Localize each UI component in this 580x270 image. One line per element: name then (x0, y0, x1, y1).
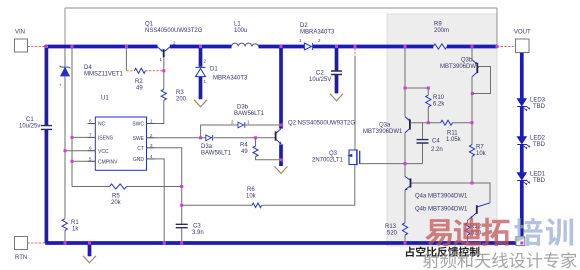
wire C2 branch (335, 47, 339, 94)
svg-text:Q3b: Q3b (461, 58, 473, 64)
resistor R13 520 (402, 223, 407, 235)
resistor R12 520 (465, 223, 470, 235)
svg-text:R4: R4 (240, 143, 248, 149)
svg-text:10k: 10k (476, 151, 487, 157)
wire CMPINV tap (72, 160, 95, 162)
wire VCC tap (65, 150, 95, 152)
svg-text:10k: 10k (246, 194, 257, 200)
svg-text:R5: R5 (112, 194, 120, 200)
svg-text:49: 49 (241, 149, 248, 155)
svg-text:C1: C1 (26, 117, 34, 123)
wire R4 branch (256, 138, 280, 160)
svg-text:BAW56LT1: BAW56LT1 (234, 111, 265, 117)
svg-text:LED2: LED2 (530, 136, 546, 142)
capacitor C3 3.9n (176, 224, 188, 227)
svg-text:3: 3 (150, 143, 153, 148)
svg-text:RTN: RTN (15, 255, 27, 261)
svg-text:R10: R10 (433, 95, 445, 101)
svg-text:R6: R6 (247, 187, 255, 193)
port VOUT (516, 39, 530, 53)
wire Q3a branch (404, 48, 406, 116)
svg-text:R2: R2 (135, 79, 143, 85)
wire zener/R1 branch (64, 48, 66, 241)
svg-text:1: 1 (160, 57, 163, 62)
ground below D1 (194, 100, 207, 107)
diode D1 MBRA340T3 (196, 67, 206, 76)
wire Q3a collector down (404, 133, 406, 177)
wire RTN to bus (red) (28, 242, 46, 244)
svg-text:8: 8 (89, 119, 92, 124)
svg-text:VIN: VIN (15, 30, 25, 36)
wire C3 to bus (181, 228, 183, 241)
svg-text:LED3: LED3 (530, 98, 546, 104)
op-amp U1 controller box (95, 117, 146, 170)
svg-text:200: 200 (176, 97, 187, 103)
ground below Q2 emitter (275, 166, 288, 173)
svg-text:NC: NC (98, 122, 106, 128)
LED3 TBD (517, 99, 530, 111)
wire R6 row to Q3 source (182, 165, 355, 205)
wire Q2 collector branch (279, 47, 283, 129)
wire R10 branch (405, 88, 428, 123)
svg-text:GND: GND (133, 157, 145, 163)
resistor R11 1.05k (441, 120, 453, 125)
wire R2 left (red) (126, 70, 134, 72)
svg-text:520: 520 (387, 231, 398, 237)
svg-text:1: 1 (247, 120, 250, 125)
svg-text:Q4a MBT3904DW1: Q4a MBT3904DW1 (415, 194, 468, 200)
wire Q1 base (163, 57, 165, 71)
wire D3a to Q2 base (214, 137, 276, 139)
svg-text:D3a: D3a (201, 144, 213, 150)
svg-text:BAW56LT1: BAW56LT1 (201, 151, 232, 157)
wire Q3 gate row (360, 163, 423, 165)
diode D3b BAW56LT1 (238, 122, 245, 128)
svg-text:TBD: TBD (533, 142, 546, 148)
wire VIN to bus (red) (28, 46, 46, 48)
wire Q3a base row / R11 (411, 122, 472, 124)
resistor R9 200m (433, 44, 447, 49)
resistor R10 6.2k (426, 95, 431, 107)
svg-text:Q3a: Q3a (379, 123, 391, 129)
wire R2 right to Q1 base (red) (145, 70, 164, 72)
svg-text:Q1: Q1 (145, 22, 154, 28)
duty-cycle feedback control shaded region (387, 14, 497, 246)
wire ISENS tap (72, 136, 95, 138)
resistor R1 1k (62, 219, 67, 231)
wire Q2 emitter to ground (279, 144, 283, 166)
diode D3a BAW56LT1 (206, 135, 213, 141)
svg-text:SWC: SWC (132, 122, 144, 128)
wire U1 left feed (71, 48, 73, 186)
svg-text:LED1: LED1 (530, 172, 546, 178)
svg-text:Q4b MBT3904DW1: Q4b MBT3904DW1 (415, 207, 468, 213)
resistor R6 10k (252, 203, 262, 208)
svg-text:5: 5 (89, 156, 92, 161)
svg-text:R1: R1 (71, 220, 79, 226)
svg-text:TBD: TBD (533, 104, 546, 110)
transistor Q2 NSS40500UW93T2G (276, 129, 282, 145)
wire C1 branch (45, 45, 49, 243)
svg-text:CMPINV: CMPINV (98, 160, 118, 166)
svg-text:C4: C4 (432, 139, 440, 145)
svg-text:20k: 20k (111, 200, 122, 206)
wire mirror base row (411, 183, 490, 203)
svg-text:2: 2 (150, 133, 153, 138)
svg-text:D2: D2 (300, 23, 308, 29)
svg-text:200m: 200m (434, 28, 449, 34)
wire Q3 drain feed (red tip) (354, 48, 356, 56)
diode D2 MBRA340T3 (304, 43, 312, 50)
transistor Q1 NSS40500UW93T2G (157, 47, 170, 57)
wire D1 branch (199, 47, 203, 100)
svg-text:10u/25v: 10u/25v (19, 124, 40, 130)
wire GND pin4 (147, 159, 165, 242)
wire ground stub below bus (88, 244, 92, 256)
LED string bottom terminal (516, 237, 525, 246)
port VIN (15, 39, 28, 52)
wire CT pin3 (147, 148, 182, 224)
svg-text:MMSZ11VET1: MMSZ11VET1 (84, 72, 124, 78)
LED2 TBD (517, 137, 530, 149)
port RTN (15, 237, 28, 250)
inductor L1 100u (232, 43, 259, 46)
resistor R4 49 (253, 146, 258, 157)
wire Q3b collector loop (472, 67, 490, 94)
svg-text:100u: 100u (234, 28, 247, 34)
resistor R3 200 (161, 89, 166, 100)
svg-text:U1: U1 (101, 96, 109, 102)
transistor Q3b MBT3906DW1 (472, 60, 477, 77)
wire VOUT stub (red) (497, 46, 516, 48)
svg-text:L1: L1 (234, 22, 241, 28)
svg-text:NSS40500UW93T2G: NSS40500UW93T2G (145, 28, 203, 34)
wire bottom ground bus (45, 241, 522, 245)
svg-text:MBT3906DW1: MBT3906DW1 (363, 129, 403, 135)
svg-text:C2: C2 (316, 71, 324, 77)
wire Q1 base to R3 (163, 71, 165, 90)
ground below C2 (330, 94, 343, 101)
svg-text:R9: R9 (434, 22, 442, 28)
capacitor C4 2.2n (417, 140, 429, 143)
svg-text:MBRA340T3: MBRA340T3 (300, 30, 335, 36)
svg-text:49: 49 (136, 86, 143, 92)
watermark text 易迪拓培训 (425, 219, 452, 246)
svg-text:2N7002LT1: 2N7002LT1 (312, 158, 344, 164)
capacitor C1 10u/25v (41, 126, 52, 130)
transistor Q3 2N7002LT1 (NMOS) (347, 149, 360, 165)
wire top bus VIN rail (45, 45, 497, 49)
wire Q4a emitter to R13 (404, 190, 406, 241)
svg-text:R3: R3 (176, 90, 184, 96)
svg-text:SWE: SWE (133, 136, 145, 142)
svg-text:6.2k: 6.2k (433, 102, 445, 108)
svg-text:TBD: TBD (533, 178, 546, 184)
svg-text:+: + (59, 83, 62, 88)
svg-text:Q2 NSS40500UW93T2G: Q2 NSS40500UW93T2G (288, 121, 355, 127)
svg-text:VCC: VCC (98, 149, 109, 155)
svg-text:3.9n: 3.9n (192, 230, 204, 236)
ground main rail (83, 256, 96, 263)
svg-text:4: 4 (150, 154, 153, 159)
svg-text:1: 1 (299, 38, 302, 43)
svg-text:6: 6 (89, 146, 92, 151)
svg-text:C3: C3 (193, 224, 201, 230)
svg-text:1.05k: 1.05k (446, 137, 462, 143)
resistor R7 10k (469, 145, 474, 157)
svg-text:Q3: Q3 (329, 151, 338, 157)
svg-text:1k: 1k (72, 227, 79, 233)
wire D3b branch (201, 125, 280, 138)
LED1 TBD (517, 173, 530, 185)
resistor R5 20k (110, 184, 127, 189)
svg-text:2.2n: 2.2n (431, 147, 443, 153)
svg-text:MBRA340T3: MBRA340T3 (213, 76, 248, 82)
feedback wire top (65, 8, 497, 46)
svg-text:D4: D4 (84, 65, 92, 71)
svg-text:D1: D1 (210, 67, 218, 73)
svg-text:MBT3906DW1: MBT3906DW1 (440, 64, 480, 70)
wire Q4b emitter to R12 (468, 218, 470, 241)
wire SWE pin2 to D3a (147, 137, 206, 139)
transistor Q4b MBT3904DW1 (470, 203, 490, 219)
svg-text:1: 1 (150, 119, 153, 124)
transistor Q3a MBT3906DW1 (405, 117, 410, 133)
U1 pin stub NC (88, 124, 155, 162)
wire Q3b emitter feed (471, 48, 473, 59)
svg-text:2: 2 (318, 38, 321, 43)
svg-text:VOUT: VOUT (514, 30, 531, 36)
svg-text:CT: CT (137, 146, 144, 152)
zener D4 MMSZ11VET1 (60, 66, 71, 76)
svg-text:ISENS: ISENS (98, 136, 114, 142)
svg-text:2: 2 (204, 59, 207, 64)
wire Q3b base down to R7 (471, 76, 473, 183)
capacitor C2 10u/25V (331, 71, 342, 75)
resistor R2 49 (134, 68, 145, 73)
wire R5 row (72, 186, 182, 188)
watermark text 射频和天线设计专家 (423, 252, 439, 268)
svg-text:7: 7 (89, 132, 92, 137)
transistor Q4a MBT3904DW1 (405, 176, 411, 190)
wire R3 to SWC pin1 (147, 100, 164, 123)
svg-text:R7: R7 (476, 145, 484, 151)
svg-text:R13: R13 (385, 224, 397, 230)
svg-text:R11: R11 (447, 131, 458, 137)
svg-text:1: 1 (204, 79, 207, 84)
wire VOUT to LED string (520, 52, 524, 241)
svg-text:10u/25V: 10u/25V (309, 77, 331, 83)
svg-text:2: 2 (231, 120, 234, 125)
svg-text:D3b: D3b (237, 105, 249, 111)
wire R2 feed (125, 48, 127, 71)
caption text 占空比反馈控制 (406, 247, 415, 257)
wire C4 branch (422, 123, 424, 164)
